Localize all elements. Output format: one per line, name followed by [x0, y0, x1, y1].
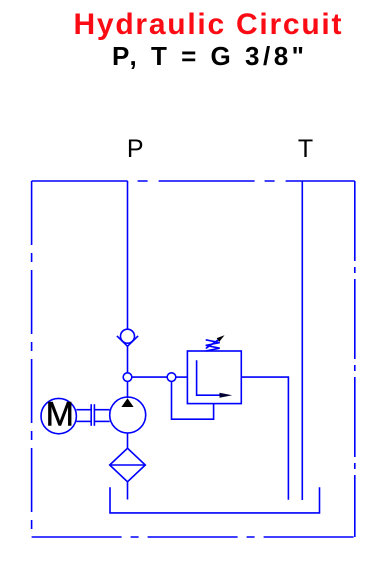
motor M1 circle [41, 398, 76, 433]
filter F1 element line [110, 464, 146, 466]
node A [123, 373, 132, 382]
wire node A to pump [127, 381, 129, 398]
node B [167, 373, 176, 382]
relief valve RV1 adjustment arrow shaft [206, 340, 219, 349]
relief valve RV1 body [187, 351, 241, 404]
relief valve RV1 internal flow path [197, 360, 221, 395]
svg-text:M: M [46, 395, 74, 433]
coupling bar left [90, 404, 92, 426]
check valve V1 seat [117, 336, 138, 346]
wire pump to filter [127, 433, 129, 448]
relief valve RV1 adjustment arrowhead [217, 335, 225, 341]
enclosure border left [31, 181, 33, 537]
relief valve RV1 internal arrowhead [220, 393, 233, 398]
coupling bar right [93, 404, 95, 426]
svg-text:P: P [127, 135, 144, 163]
shaft upper-left [76, 409, 91, 411]
enclosure border right [354, 181, 356, 537]
wire P riser [127, 181, 129, 329]
wire node B to relief valve [176, 376, 188, 378]
shaft lower-left [76, 420, 91, 422]
enclosure border bottom [32, 536, 355, 538]
svg-text:T: T [298, 135, 313, 163]
pump P1 direction triangle [121, 398, 133, 407]
filter F1 diamond [110, 448, 146, 482]
tank T1 [110, 487, 320, 513]
wire relief output to tank [241, 377, 288, 500]
check valve V1 circle [121, 329, 135, 343]
wire relief drain [172, 381, 214, 419]
wire T riser [301, 181, 303, 500]
wire node A to node B [132, 376, 168, 378]
enclosure border top [32, 180, 355, 182]
pump P1 circle [110, 397, 146, 433]
shaft lower-right [94, 420, 109, 422]
wire check valve to node A [127, 346, 129, 373]
relief valve RV1 spring [206, 340, 220, 351]
wire filter to tank [127, 482, 129, 500]
shaft upper-right [94, 409, 109, 411]
